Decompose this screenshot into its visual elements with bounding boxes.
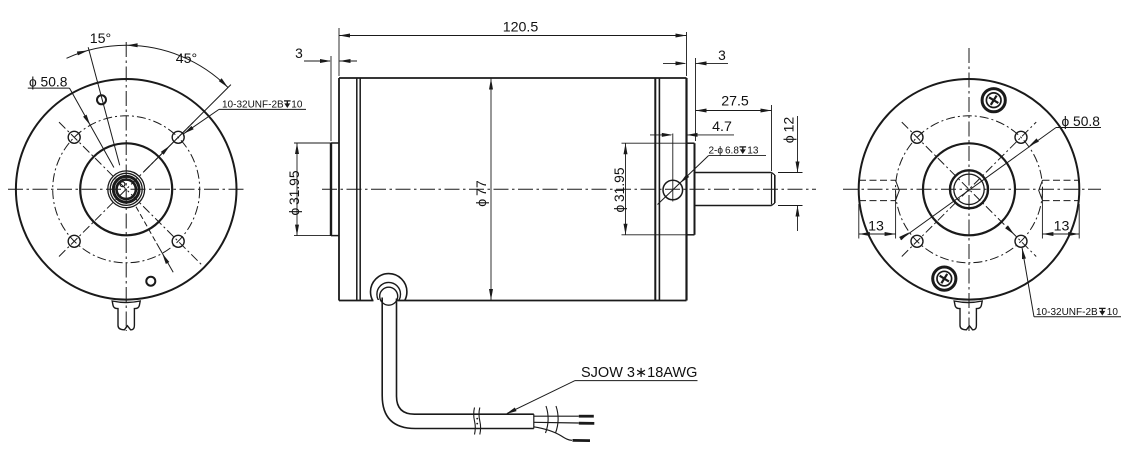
left view hub small hole <box>120 182 125 187</box>
dim 4.7 arrow a <box>662 133 673 137</box>
left thread inner arrow on 45-line <box>161 144 172 155</box>
dim phi12 ext bottom <box>778 205 803 207</box>
right view bolt circle (dash-dot) <box>896 116 1043 263</box>
right view mounting hole 3 <box>911 235 923 247</box>
svg-text:10: 10 <box>1107 307 1119 318</box>
right view shaft circle <box>950 170 988 208</box>
dim 4.7 line a <box>650 134 671 136</box>
svg-text:10-32UNF-2B: 10-32UNF-2B <box>1036 307 1098 318</box>
cable leader line <box>507 381 575 414</box>
left view vertical centerline <box>125 42 127 331</box>
right phi50.8 arrow far <box>899 231 910 241</box>
svg-text:2-ϕ 6.8: 2-ϕ 6.8 <box>709 146 740 157</box>
left boss top edge <box>331 142 339 144</box>
right end-cap seam line 1 <box>654 78 656 301</box>
dim phi31.95R arrow bottom <box>624 224 628 235</box>
dim 120.5 ext right <box>686 32 688 76</box>
left thread callout underline <box>219 108 306 110</box>
svg-text:ϕ 77: ϕ 77 <box>474 180 490 207</box>
left boss face <box>330 143 332 236</box>
left view mounting hole 4 <box>172 235 184 247</box>
motor body left edge <box>338 78 340 301</box>
motor body bottom edge left segment <box>339 300 374 302</box>
cable jacket end <box>533 414 535 428</box>
right view shaft inner circle <box>954 174 984 204</box>
dim 120.5 ext left <box>338 28 340 76</box>
left thread callout leader <box>184 109 220 133</box>
wire break arc 2 <box>556 406 559 433</box>
dim phi12 line bottom <box>797 206 799 231</box>
shaft top edge <box>695 172 772 174</box>
dim 3 left line a <box>304 60 330 62</box>
15-degree dimension arc <box>67 45 127 58</box>
right view right notch bottom hidden line <box>1043 200 1080 202</box>
right view diagonal centerline NE-SW <box>902 122 1036 256</box>
dim 3 left arrow a <box>320 59 331 63</box>
svg-text:ϕ 31.95: ϕ 31.95 <box>287 170 302 215</box>
left thread callout leader arrow <box>182 126 193 136</box>
dim 13 left ext b <box>895 194 897 239</box>
right end-cap seam line 2 <box>658 78 660 301</box>
dim 27.5 arrow left <box>696 109 707 113</box>
right view diagonal centerline NW-SE <box>902 122 1036 256</box>
left view pilot boss circle <box>80 143 172 235</box>
svg-text:13: 13 <box>868 219 884 235</box>
cross hole label underline <box>709 155 767 157</box>
right boss top edge <box>687 142 695 144</box>
right phi50.8 arrow near <box>1028 138 1039 148</box>
motor body bottom edge right segment <box>397 300 686 302</box>
svg-text:15°: 15° <box>90 31 111 47</box>
left end-bell seam line 2 <box>359 78 361 301</box>
dim phi31.95L line <box>296 143 298 236</box>
dim phi31.95R line <box>625 143 627 235</box>
dim 3 right ext <box>695 58 697 141</box>
dim 4.7 arrow b <box>687 133 698 137</box>
shaft chamfer line <box>771 174 773 205</box>
right phi50.8 label underline <box>1056 127 1101 129</box>
svg-text:3: 3 <box>295 46 303 61</box>
dim 3 right arrow b <box>696 61 707 65</box>
dim 3 left line b <box>340 60 358 62</box>
dim phi77 arrow bottom <box>489 289 493 300</box>
dim 27.5 arrow right <box>761 109 772 113</box>
wire 2 <box>534 421 579 424</box>
dim 3 right line a <box>663 62 685 64</box>
dim 13 left arrow a <box>859 232 870 236</box>
45-degree arc arrow bottom <box>219 78 230 89</box>
right thread callout leader <box>1022 248 1034 317</box>
dim phi77 line <box>490 78 492 301</box>
cross hole center line <box>672 134 674 202</box>
svg-text:ϕ 50.8: ϕ 50.8 <box>29 74 68 89</box>
cross hole 2-phi6.8 <box>663 180 683 200</box>
right boss bottom edge <box>687 234 695 236</box>
cable outer edge <box>382 298 534 429</box>
cable grommet inner <box>380 287 398 305</box>
svg-text:3: 3 <box>718 48 726 63</box>
right view right notch vee <box>1039 180 1043 200</box>
dim phi77 arrow top <box>489 79 493 90</box>
right view screw top <box>982 89 1005 112</box>
dim 13 left line <box>859 233 896 235</box>
dim phi31.95L ext bottom <box>294 235 331 237</box>
dim phi31.95L arrow top <box>295 143 299 154</box>
right view horizontal centerline <box>843 188 1101 190</box>
left view small hole bottom <box>146 277 155 286</box>
right view pilot boss circle <box>923 143 1015 235</box>
right phi50.8 dimension line <box>901 128 1057 240</box>
shaft chamfer top <box>772 173 775 176</box>
dim phi12 line top <box>797 116 799 172</box>
dim phi12 ext top <box>778 172 803 174</box>
right boss face <box>694 143 696 235</box>
svg-text:120.5: 120.5 <box>503 20 539 36</box>
left view mounting hole 1 <box>68 131 80 143</box>
right view left notch vee <box>896 180 900 200</box>
15-degree arc arrow left <box>77 49 89 56</box>
left phi50.8 arrow far <box>160 252 169 264</box>
dim 13 right ext b <box>1078 204 1080 239</box>
dim 120.5 arrow left <box>339 34 350 38</box>
dim 3 left ext <box>330 56 332 141</box>
shaft bottom edge <box>695 205 772 207</box>
left view bolt circle (dash-dot) <box>53 116 200 263</box>
wire 1 stripped tip <box>579 415 594 418</box>
right end view outer circle <box>859 79 1080 300</box>
wire break arc 1 <box>546 406 549 433</box>
left view horizontal centerline <box>8 188 245 190</box>
right view mounting hole 2 <box>1015 131 1027 143</box>
right view bottom tab <box>954 301 982 330</box>
wire 1 <box>534 415 579 417</box>
cable leader arrow <box>505 408 517 416</box>
right thread callout underline <box>1034 316 1121 318</box>
left view mounting hole 2 <box>172 131 184 143</box>
motor body top edge <box>339 77 687 79</box>
dim 4.7 tail <box>687 134 735 136</box>
left view bearing ring inner <box>110 173 142 205</box>
right thread leader arrow <box>1020 248 1026 260</box>
dim 120.5 arrow right <box>676 34 687 38</box>
shaft chamfer bottom <box>772 203 775 206</box>
dim phi31.95L arrow bottom <box>295 225 299 236</box>
left view small hole top <box>97 95 106 104</box>
left view diagonal centerline NE-SW <box>59 122 193 256</box>
left view shaft bore ring <box>117 180 136 199</box>
cable inner edge <box>397 299 534 415</box>
left view diagonal centerline NW-SE <box>59 122 203 266</box>
right depth symbol <box>1099 308 1106 315</box>
svg-text:SJOW 3∗18AWG: SJOW 3∗18AWG <box>581 365 697 381</box>
right view left notch bottom hidden line <box>859 200 896 202</box>
dim 3 left arrow b <box>340 59 351 63</box>
shaft end face <box>774 175 776 203</box>
dim 13 right line <box>1042 233 1079 235</box>
right view screw bottom <box>933 267 956 290</box>
dim 3 right tail <box>696 62 729 64</box>
left phi50.8 arrow near <box>83 115 92 127</box>
svg-text:27.5: 27.5 <box>721 94 749 110</box>
left phi50.8 dimension line lower tail <box>157 243 174 272</box>
svg-text:13: 13 <box>747 146 759 157</box>
svg-text:4.7: 4.7 <box>712 119 732 135</box>
dim 13 right ext a <box>1041 194 1043 239</box>
right view mounting hole 4 <box>1015 235 1027 247</box>
mid depth symbol <box>740 147 747 154</box>
svg-text:45°: 45° <box>176 51 197 67</box>
cable grommet outer <box>371 274 407 310</box>
dim phi12 arrow top <box>796 162 800 173</box>
cable label underline <box>575 380 698 382</box>
left phi50.8 label underline <box>28 87 70 89</box>
cable break mark 1 <box>474 408 476 435</box>
dim phi12 arrow bottom <box>796 206 800 217</box>
cross hole leader arrow <box>679 174 690 185</box>
left view mounting hole 3 <box>68 235 80 247</box>
45-degree dimension arc <box>126 45 228 87</box>
dim 13 right arrow a <box>1042 232 1053 236</box>
left depth symbol <box>284 101 291 108</box>
dim 13 right arrow b <box>1068 232 1079 236</box>
cable break dots <box>476 418 478 420</box>
cable grommet middle <box>377 282 401 306</box>
left end-bell seam line 1 <box>356 78 358 301</box>
motor body right edge <box>685 78 687 301</box>
left view bottom tab <box>112 301 140 330</box>
dim 3 right arrow a <box>676 61 687 65</box>
left end view outer circle <box>16 79 237 300</box>
svg-text:10-32UNF-2B: 10-32UNF-2B <box>222 100 284 111</box>
right thread inner arrow on diagonal <box>1005 225 1016 236</box>
45-degree arc arrow top <box>127 43 138 47</box>
left phi50.8 dimension line upper <box>70 88 114 167</box>
svg-text:10: 10 <box>291 100 303 111</box>
left view shaft section ring <box>113 176 139 202</box>
dim 27.5 line <box>696 110 772 112</box>
dim phi31.95R arrow top <box>624 143 628 154</box>
left view 45-degree extension line <box>144 85 231 172</box>
dim phi31.95R ext bottom <box>622 234 687 236</box>
dim 27.5 ext right <box>771 105 773 171</box>
right view left notch top hidden line <box>859 179 896 181</box>
dim 120.5 line <box>339 35 687 37</box>
svg-text:ϕ 50.8: ϕ 50.8 <box>1062 114 1101 129</box>
dim phi31.95L ext top <box>294 142 331 144</box>
svg-text:ϕ 31.95: ϕ 31.95 <box>612 167 627 212</box>
right view vertical centerline <box>968 48 970 331</box>
right view right notch top hidden line <box>1043 179 1080 181</box>
cable break mark 2 <box>479 408 481 435</box>
dim 13 left ext a <box>858 204 860 239</box>
dim 13 left arrow b <box>885 232 896 236</box>
middle view horizontal centerline <box>322 188 816 190</box>
left boss bottom edge <box>331 235 339 237</box>
svg-text:ϕ 12: ϕ 12 <box>782 117 798 144</box>
wire 2 stripped tip <box>579 422 595 425</box>
left view 15-degree extension line <box>88 47 120 165</box>
wire 3 <box>534 427 572 441</box>
svg-text:13: 13 <box>1054 219 1070 235</box>
dim phi31.95R ext top <box>622 142 687 144</box>
cross hole leader line <box>658 156 709 205</box>
right view mounting hole 1 <box>911 131 923 143</box>
left view bearing ring outer <box>108 171 145 208</box>
wire 3 stripped tip <box>573 439 591 442</box>
left phi50.8 dimension line lower dashed <box>136 207 157 244</box>
